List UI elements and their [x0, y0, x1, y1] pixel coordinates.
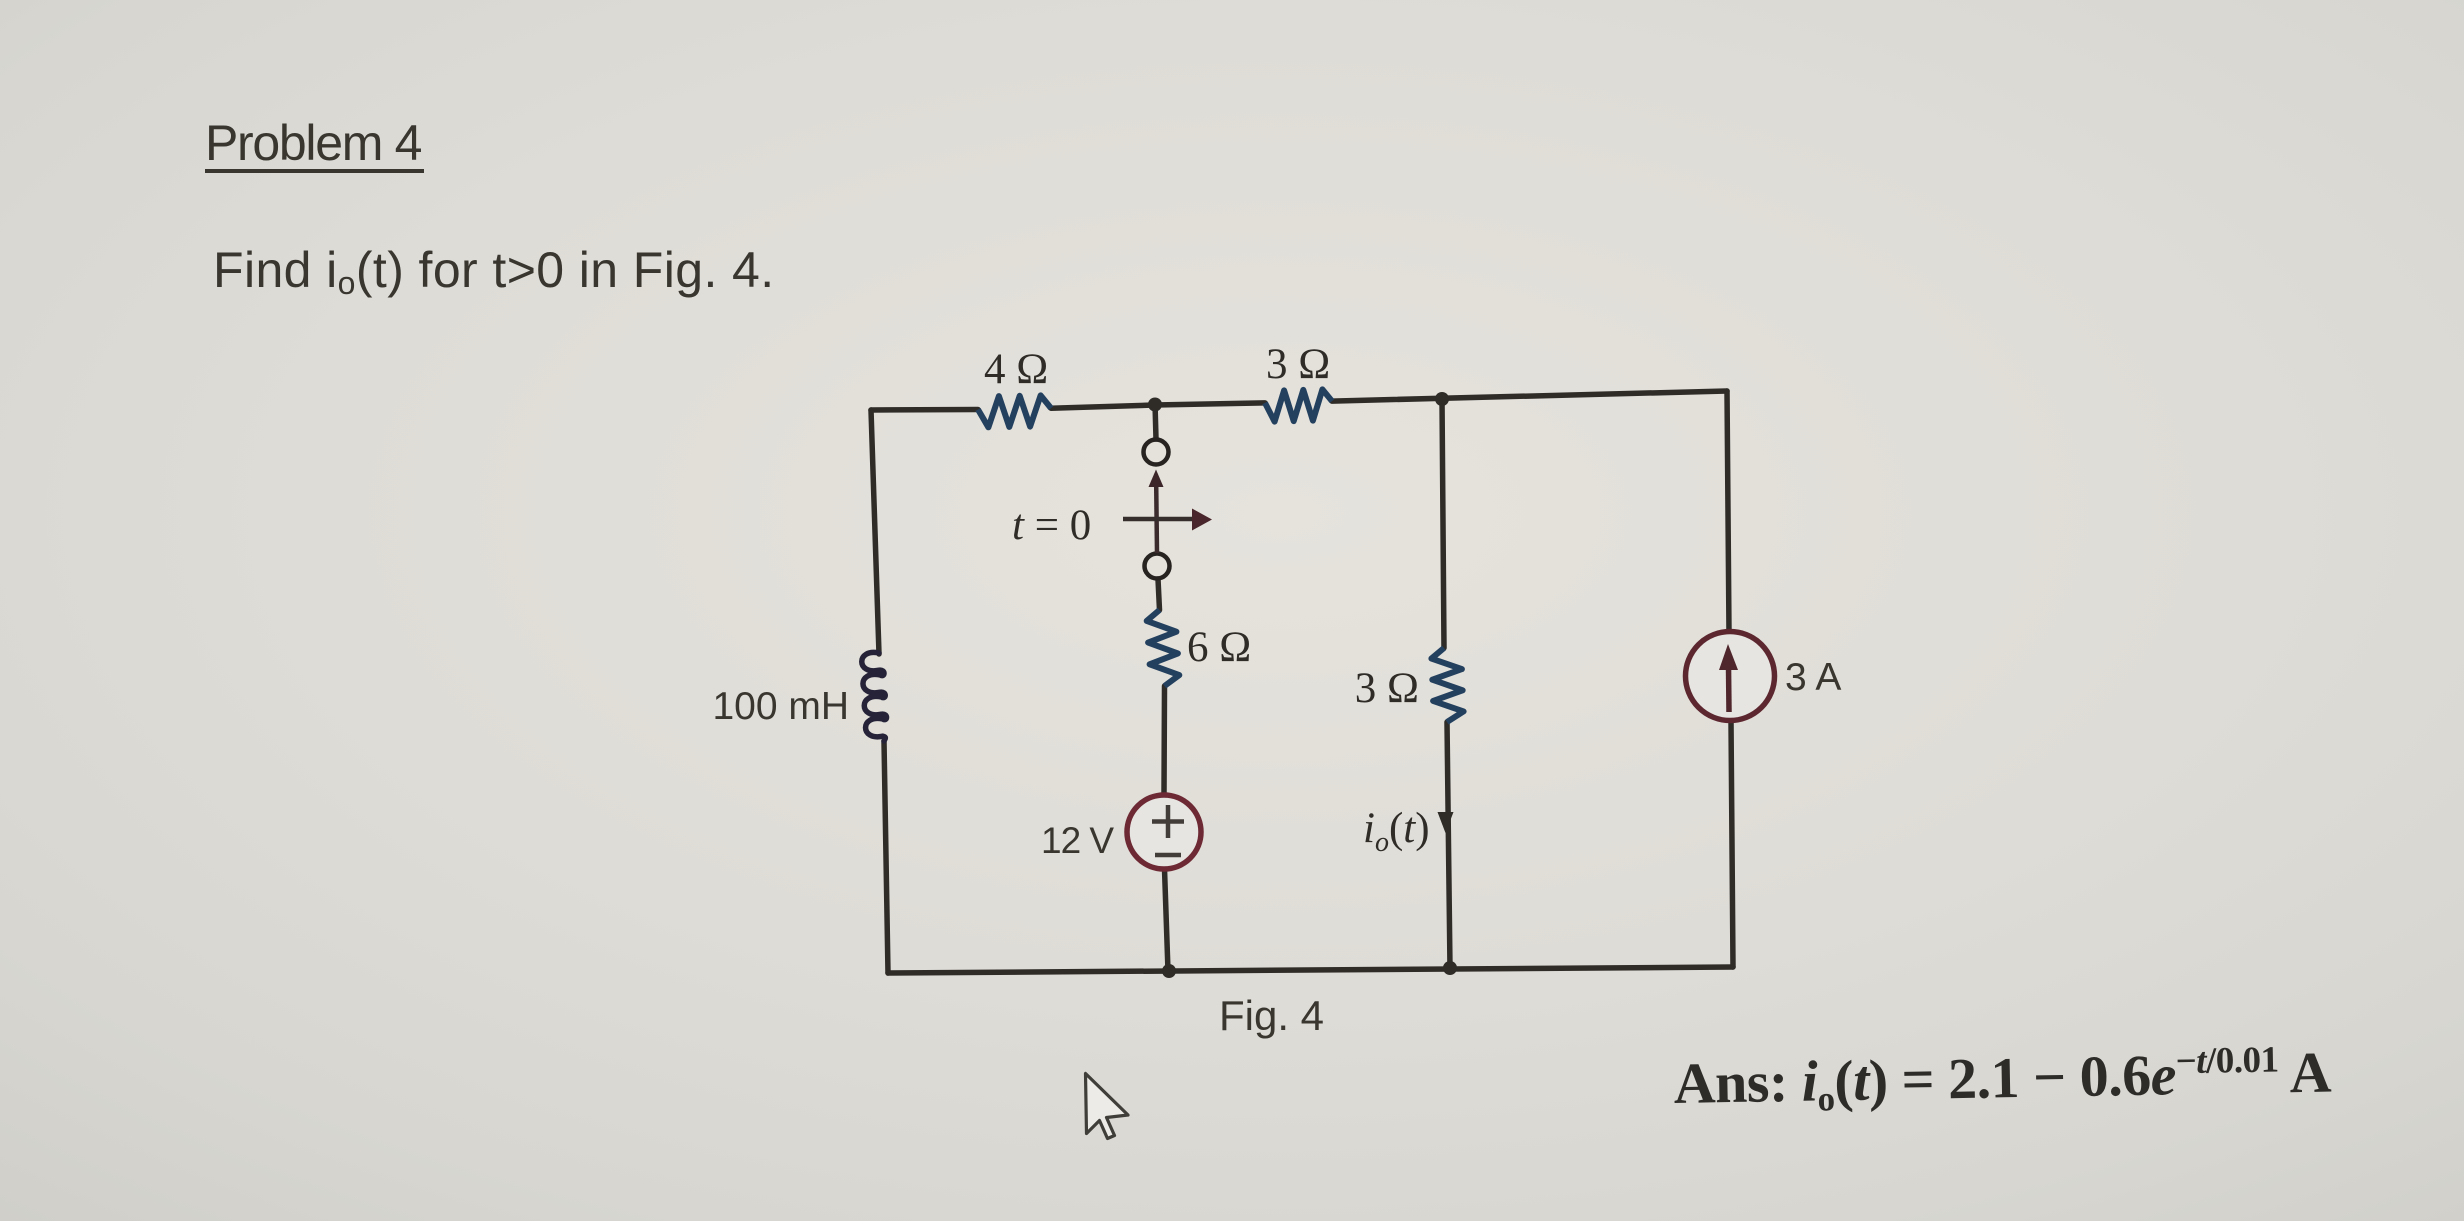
svg-text:Problem 4: Problem 4 [205, 115, 422, 171]
svg-text:Fig. 4: Fig. 4 [1219, 992, 1324, 1039]
svg-text:12 V: 12 V [1041, 820, 1114, 861]
svg-text:4 Ω: 4 Ω [984, 346, 1048, 393]
svg-text:Find io(t) for t>0 in Fig. 4.: Find io(t) for t>0 in Fig. 4. [213, 242, 775, 301]
svg-text:3 A: 3 A [1785, 656, 1841, 699]
svg-text:100 mH: 100 mH [712, 685, 849, 728]
svg-text:t = 0: t = 0 [1012, 502, 1091, 549]
svg-text:io(t): io(t) [1363, 805, 1430, 858]
svg-text:3 Ω: 3 Ω [1355, 665, 1419, 712]
svg-text:3 Ω: 3 Ω [1266, 341, 1330, 388]
svg-text:6 Ω: 6 Ω [1187, 624, 1251, 671]
